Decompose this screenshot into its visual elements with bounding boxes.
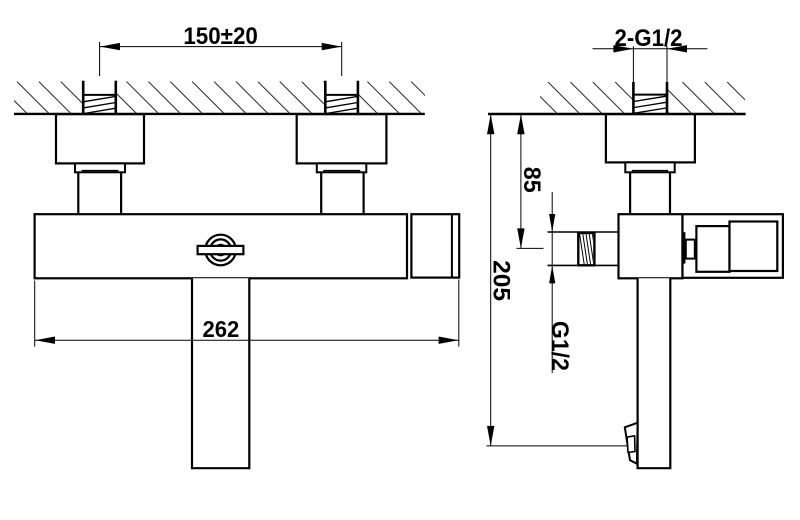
svg-text:G1/2: G1/2 <box>546 321 573 371</box>
right escutcheon step <box>317 163 367 172</box>
escutcheon (side view) <box>606 114 695 162</box>
dimension 150±20 <box>100 23 342 76</box>
escutcheon step (side view) <box>625 162 674 172</box>
dimension 2-G1/2 <box>593 25 708 82</box>
shower outlet pipe (side view) <box>548 232 619 265</box>
svg-text:262: 262 <box>203 316 240 342</box>
handle knob (side view) <box>730 222 778 272</box>
left supply pipe (front view) <box>78 172 121 214</box>
dimension 85 <box>517 114 546 248</box>
aerator inset <box>627 436 635 453</box>
wall surface line (side view) <box>488 113 746 115</box>
diverter knob outer circle <box>205 235 236 266</box>
cartridge housing (side view) <box>683 214 783 278</box>
svg-text:2-G1/2: 2-G1/2 <box>615 25 683 52</box>
dimension G1/2 (shower outlet) <box>546 192 573 373</box>
right supply pipe (front view) <box>321 172 363 214</box>
wall hatching (front view) <box>0 82 465 114</box>
spout (front view) <box>192 278 249 468</box>
spout (side view) <box>638 278 671 468</box>
right escutcheon (front view) <box>297 114 387 163</box>
svg-text:205: 205 <box>487 260 514 301</box>
mixer body (side view) <box>619 214 683 278</box>
valve stem <box>686 240 695 259</box>
shower outlet thread <box>578 233 597 265</box>
left inlet nipple (front view) <box>82 81 117 114</box>
handle base (side view) <box>696 226 729 272</box>
cartridge flange <box>683 232 686 263</box>
diverter knob middle circle <box>210 239 231 260</box>
supply pipe (side view) <box>630 172 670 214</box>
wall hatching (side view) <box>481 82 782 114</box>
dimension 262 <box>35 280 459 347</box>
diverter knob lever bar <box>198 246 244 254</box>
body end cap (front view) <box>411 214 459 277</box>
diverter knob hub <box>214 244 227 257</box>
mixer body (front view) <box>35 214 407 278</box>
left escutcheon step <box>75 163 125 172</box>
dimension 205 <box>487 114 634 446</box>
spout aerator flap (side view) <box>625 423 638 464</box>
wall surface line (front view) <box>14 113 425 115</box>
inlet nipple (side view) <box>632 82 668 114</box>
svg-text:85: 85 <box>518 167 545 193</box>
right inlet nipple (front view) <box>324 81 359 114</box>
left escutcheon (front view) <box>56 114 144 163</box>
svg-text:150±20: 150±20 <box>183 23 258 50</box>
